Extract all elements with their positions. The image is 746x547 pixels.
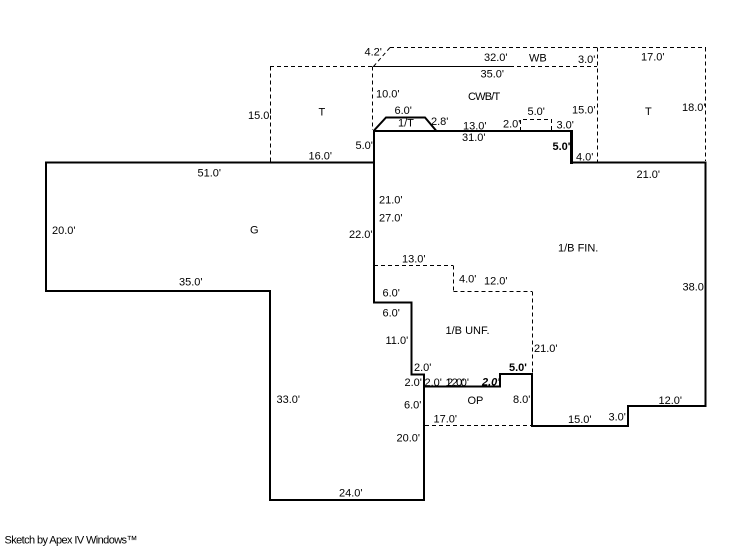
wire: step wall 3.0' at x628 [627, 405, 629, 427]
svg-text:2.0': 2.0' [414, 362, 431, 374]
wire: dashed left terrace top edge [270, 66, 374, 68]
svg-text:12.0': 12.0' [484, 276, 508, 288]
wire: garage top wall 51.0'/16.0' [45, 162, 375, 164]
svg-text:1/T: 1/T [398, 118, 414, 130]
wire: porch step wall 2.0' at x500 [499, 373, 501, 388]
svg-text:1/B FIN.: 1/B FIN. [558, 243, 598, 255]
svg-text:WB: WB [529, 53, 547, 65]
svg-text:10.0': 10.0' [376, 89, 400, 101]
wire: dashed basement line 21.0' at x532 [532, 292, 534, 374]
wire: dashed vertical 3.0'/15.0' at x597 [597, 48, 599, 164]
wire: house south wall 12.0'/2.0' at y386 [423, 386, 501, 388]
svg-text:6.0': 6.0' [404, 400, 421, 412]
svg-text:6.0': 6.0' [383, 288, 400, 300]
wire: house left wall 5.0'/22.0'/27.0'/21.0' [373, 130, 375, 304]
svg-text:13.0': 13.0' [402, 254, 426, 266]
wire: dashed right terrace right edge 18.0' [705, 48, 707, 162]
svg-text:2.8': 2.8' [431, 116, 448, 128]
svg-text:4.0': 4.0' [459, 274, 476, 286]
wire: upper right wall 4.0'/21.0' [570, 162, 707, 164]
svg-text:20.0': 20.0' [52, 225, 76, 237]
wire: dashed porch bottom 17.0' [425, 425, 531, 427]
wire: vertical wall 20.0' right of bottom section [423, 374, 425, 502]
svg-text:15.0': 15.0' [248, 110, 272, 122]
svg-text:13.0': 13.0' [463, 121, 487, 133]
svg-text:51.0': 51.0' [198, 168, 222, 180]
svg-text:32.0': 32.0' [484, 52, 508, 64]
svg-text:5.0': 5.0' [509, 362, 527, 374]
wire: dashed balcony diagonal 4.2' [374, 48, 391, 67]
wire: dashed basement line 12.0' [454, 291, 533, 293]
svg-text:4.2': 4.2' [365, 47, 382, 59]
svg-text:20.0': 20.0' [397, 433, 421, 445]
svg-text:8.0': 8.0' [513, 394, 530, 406]
wire: bold step wall 5.0' at x571 [570, 130, 573, 164]
node: terrace trapezoid 1/T (6.0' top, 2.8' slant) [374, 118, 436, 131]
wire: dashed basement line 13.0' [374, 265, 453, 267]
svg-text:18.0': 18.0' [682, 102, 706, 114]
svg-text:24.0': 24.0' [339, 488, 363, 500]
wire: step wall 12.0' at y406 [627, 405, 707, 407]
wire: dashed balcony bottom right part [510, 66, 597, 68]
svg-text:15.0': 15.0' [572, 105, 596, 117]
svg-text:G: G [250, 225, 259, 237]
wire: step wall 6.0' at y302 [373, 302, 413, 304]
svg-text:OP: OP [468, 395, 484, 407]
svg-text:21.0': 21.0' [534, 343, 558, 355]
svg-text:17.0': 17.0' [434, 414, 458, 426]
svg-text:3.0': 3.0' [557, 120, 574, 132]
wire: right wall 38.0' [705, 162, 707, 408]
wire: porch right wall 8.0' [531, 374, 533, 428]
svg-text:3.0': 3.0' [578, 54, 595, 66]
svg-text:16.0': 16.0' [309, 151, 333, 163]
wire: dashed balcony top edge 32.0'/WB/17.0' [390, 47, 706, 49]
svg-text:5.0': 5.0' [528, 106, 545, 118]
wire: dashed left terrace right edge 10.0' [372, 67, 374, 131]
wire: bottom-right wall 15.0' [531, 425, 629, 427]
svg-text:27.0': 27.0' [379, 213, 403, 225]
svg-text:T: T [645, 106, 652, 118]
svg-text:2.0': 2.0' [481, 377, 500, 389]
svg-text:4.0': 4.0' [576, 152, 593, 164]
svg-text:2.0': 2.0' [425, 377, 442, 389]
svg-text:5.0': 5.0' [553, 141, 571, 153]
svg-text:2.0': 2.0' [447, 377, 464, 389]
wire: bottom wall 24.0' [269, 499, 425, 501]
svg-text:11.0': 11.0' [386, 335, 409, 347]
wire: house top wall 31.0' (13.0'+2.0'+5.0'+3.0') [373, 130, 573, 132]
wire: lower-left vertical wall 33.0' [269, 290, 271, 501]
svg-text:35.0': 35.0' [481, 69, 505, 81]
svg-text:T: T [319, 107, 326, 119]
wire: garage bottom wall 35.0' [45, 290, 271, 292]
svg-text:1/B UNF.: 1/B UNF. [446, 325, 490, 337]
svg-text:5.0': 5.0' [356, 140, 373, 152]
svg-text:12.0': 12.0' [659, 395, 683, 407]
svg-text:15.0': 15.0' [568, 414, 592, 426]
node: small dashed box 5.0' on top wall [521, 120, 552, 132]
wire: vertical wall 11.0' [411, 302, 413, 376]
wire: dashed basement step 4.0' [453, 266, 455, 292]
svg-text:Sketch by Apex IV Windows™: Sketch by Apex IV Windows™ [5, 535, 137, 547]
svg-text:6.0': 6.0' [395, 105, 412, 117]
svg-text:2.0': 2.0' [503, 119, 520, 131]
svg-text:22.0': 22.0' [349, 229, 373, 241]
svg-text:21.0': 21.0' [379, 195, 403, 207]
svg-text:38.0': 38.0' [683, 282, 707, 294]
svg-text:3.0': 3.0' [609, 412, 626, 424]
svg-text:6.0': 6.0' [383, 308, 400, 320]
svg-text:35.0': 35.0' [179, 277, 203, 289]
wire: step wall 2.0' at y374 [411, 374, 426, 376]
wire: thin balcony bottom line 35.0' solid part [373, 66, 510, 68]
svg-text:21.0': 21.0' [637, 169, 661, 181]
svg-text:2.0': 2.0' [405, 377, 422, 389]
wire: bold porch top wall 5.0' [499, 373, 533, 375]
wire: garage left wall 20.0' [45, 162, 47, 293]
wire: dashed left terrace left edge 15.0' [270, 67, 272, 162]
svg-text:CWB/T: CWB/T [468, 91, 501, 103]
svg-text:17.0': 17.0' [641, 52, 665, 64]
svg-text:31.0': 31.0' [462, 132, 486, 144]
svg-text:33.0': 33.0' [277, 394, 301, 406]
